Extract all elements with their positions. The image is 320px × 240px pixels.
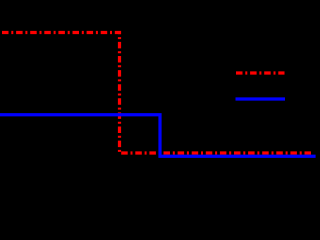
red dash-dot step line — [2, 33, 312, 154]
legend blue solid sample — [236, 97, 286, 100]
legend red dash-dot sample — [236, 71, 285, 74]
blue solid step line — [0, 115, 316, 157]
